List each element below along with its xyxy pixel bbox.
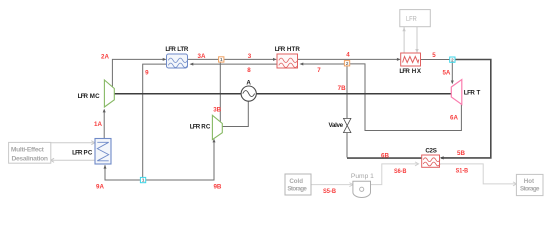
svg-text:Desalination: Desalination <box>11 155 48 162</box>
svg-text:HX: HX <box>412 68 422 75</box>
svg-text:2: 2 <box>451 57 454 62</box>
svg-text:LFR: LFR <box>406 16 417 23</box>
svg-text:5: 5 <box>432 52 436 59</box>
svg-text:Storage: Storage <box>520 186 540 193</box>
svg-text:A: A <box>246 79 251 86</box>
svg-text:3: 3 <box>248 53 252 60</box>
svg-text:7: 7 <box>317 67 321 74</box>
svg-text:Pump 1: Pump 1 <box>351 173 374 180</box>
svg-text:RC: RC <box>201 123 211 130</box>
svg-text:5A: 5A <box>442 69 450 76</box>
svg-text:3A: 3A <box>198 53 206 60</box>
svg-text:9: 9 <box>145 70 149 77</box>
svg-text:T: T <box>477 89 481 96</box>
svg-text:Multi-Effect: Multi-Effect <box>11 147 45 154</box>
svg-text:Storage: Storage <box>287 186 307 193</box>
svg-text:LFR: LFR <box>399 68 410 75</box>
svg-text:6B: 6B <box>381 152 389 159</box>
svg-text:S5-B: S5-B <box>323 188 336 195</box>
svg-text:1A: 1A <box>94 121 102 128</box>
svg-text:6A: 6A <box>450 114 458 121</box>
svg-text:3B: 3B <box>213 107 221 114</box>
svg-text:S1-B: S1-B <box>456 167 469 174</box>
svg-text:LTR: LTR <box>177 46 189 53</box>
svg-text:LFR: LFR <box>190 123 201 130</box>
svg-text:9A: 9A <box>96 183 104 190</box>
svg-text:2: 2 <box>346 61 349 66</box>
svg-text:S6-B: S6-B <box>394 168 407 175</box>
svg-text:4: 4 <box>346 51 350 58</box>
svg-text:1: 1 <box>220 57 223 62</box>
svg-text:7B: 7B <box>338 85 346 92</box>
svg-text:8: 8 <box>247 67 251 74</box>
svg-text:Hot: Hot <box>524 178 534 185</box>
svg-text:HTR: HTR <box>287 46 301 53</box>
svg-text:Cold: Cold <box>289 178 303 185</box>
svg-text:9B: 9B <box>213 183 221 190</box>
svg-text:5B: 5B <box>457 150 465 157</box>
svg-text:Valve: Valve <box>329 122 344 129</box>
svg-text:1: 1 <box>142 178 145 183</box>
svg-text:MC: MC <box>90 93 100 100</box>
svg-text:LFR: LFR <box>275 46 286 53</box>
svg-text:LFR: LFR <box>72 149 83 156</box>
svg-text:LFR: LFR <box>78 93 89 100</box>
svg-text:2A: 2A <box>101 54 109 61</box>
svg-text:LFR: LFR <box>464 89 476 96</box>
svg-text:PC: PC <box>84 149 93 156</box>
svg-text:C2S: C2S <box>425 147 437 154</box>
svg-text:LFR: LFR <box>165 46 176 53</box>
